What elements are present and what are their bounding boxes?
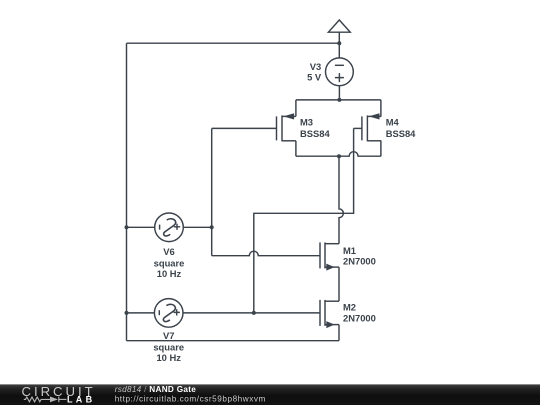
svg-text:10 Hz: 10 Hz	[156, 352, 181, 363]
svg-text:M3: M3	[300, 116, 313, 127]
svg-text:V6: V6	[163, 246, 174, 257]
svg-text:2N7000: 2N7000	[343, 256, 376, 267]
svg-text:V7: V7	[163, 330, 174, 341]
svg-text:rsd814 / NAND Gate: rsd814 / NAND Gate	[115, 385, 197, 394]
svg-text:BSS84: BSS84	[300, 128, 330, 139]
svg-text:2N7000: 2N7000	[343, 312, 376, 323]
svg-text:M2: M2	[343, 302, 356, 313]
svg-text:V3: V3	[310, 61, 321, 72]
svg-text:square: square	[153, 341, 184, 352]
svg-text:10 Hz: 10 Hz	[157, 268, 182, 279]
svg-text:BSS84: BSS84	[386, 128, 416, 139]
svg-text:5 V: 5 V	[307, 72, 322, 83]
svg-text:M4: M4	[386, 116, 400, 127]
svg-text:http://circuitlab.com/csr59bp8: http://circuitlab.com/csr59bp8hwxvm	[115, 394, 266, 403]
svg-text:square: square	[154, 257, 185, 268]
svg-text:LAB: LAB	[67, 395, 95, 405]
svg-text:M1: M1	[343, 245, 356, 256]
